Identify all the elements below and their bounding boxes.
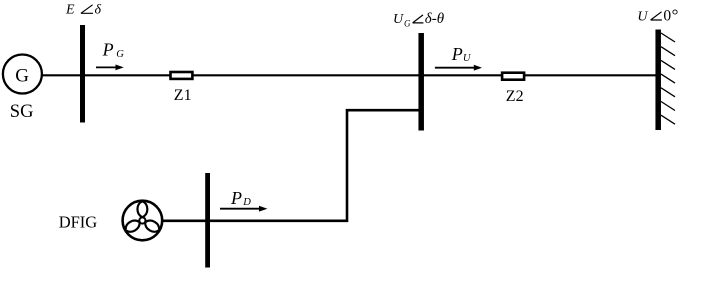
svg-text:U: U [637, 9, 648, 24]
svg-text:Z1: Z1 [174, 87, 192, 104]
svg-text:P: P [451, 44, 463, 64]
svg-text:Z2: Z2 [506, 88, 524, 105]
svg-text:G: G [15, 66, 29, 87]
svg-text:DFIG: DFIG [59, 213, 98, 232]
svg-text:P: P [102, 39, 114, 59]
svg-text:D: D [242, 197, 251, 208]
svg-text:E: E [65, 3, 75, 18]
svg-text:SG: SG [10, 102, 34, 122]
svg-text:°: ° [672, 5, 679, 24]
svg-text:U: U [393, 12, 404, 27]
svg-text:δ-θ: δ-θ [425, 11, 445, 27]
svg-text:G: G [404, 19, 411, 29]
svg-text:0: 0 [663, 7, 671, 24]
svg-text:P: P [230, 188, 242, 208]
svg-text:G: G [116, 49, 124, 60]
svg-text:δ: δ [95, 3, 102, 18]
